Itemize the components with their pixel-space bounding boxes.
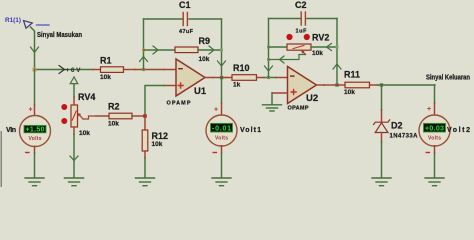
wire: R10 to U2 minus [264,77,276,79]
svg-text:Volts: Volts [428,136,441,142]
wire: +6V horizontal rail [35,69,94,71]
adjust buttons [61,104,67,110]
svg-text:1k: 1k [233,82,241,89]
op-amp U1 [167,59,207,107]
ground U2+ [263,104,282,106]
svg-text:Volts: Volts [215,136,228,142]
ground Volt1 [212,178,231,186]
svg-text:R1(1): R1(1) [5,17,21,24]
sheet border left edge [0,131,2,187]
svg-text:1uF: 1uF [296,29,308,35]
zener diode D2 [374,85,419,177]
input terminal R1(1) [5,17,49,28]
wire: U1 plus input path [145,86,176,117]
svg-text:+6V: +6V [66,67,82,74]
junction D2 node [380,83,383,86]
ground VIn [25,178,44,186]
svg-text:R9: R9 [199,36,211,46]
ground RV4 [65,178,84,186]
svg-text:+: + [427,106,431,113]
U2 plus input to ground [263,93,288,111]
feedback left vertical wire [143,19,145,70]
svg-text:RV2: RV2 [312,33,329,43]
svg-text:U2: U2 [306,93,318,104]
svg-text:Volt1: Volt1 [240,127,261,134]
current arrow up on left vertical [140,57,148,62]
junction input node [33,68,37,72]
svg-text:+: + [28,107,32,114]
junction minus node [142,68,145,71]
svg-text:10k: 10k [152,141,163,148]
junction at R9 wire left [142,48,145,51]
svg-text:10k: 10k [312,50,323,57]
top terminal arrow (open head, gap to rail) [73,84,75,97]
svg-text:Volts: Volts [29,136,42,142]
resistor R2 [96,102,145,128]
svg-text:C2: C2 [295,0,307,10]
svg-text:R2: R2 [108,102,120,112]
svg-text:R11: R11 [344,70,360,80]
svg-text:RV4: RV4 [78,92,95,102]
svg-text:VIn: VIn [6,127,16,134]
svg-text:U1: U1 [194,86,207,97]
resistor R12 [142,116,168,177]
svg-text:47uF: 47uF [179,29,194,35]
wiper arrow to R2 [83,116,96,119]
svg-text:R10: R10 [233,63,250,73]
capacitor C1 [144,0,222,35]
junction R2/R12 node [143,114,147,118]
feedback 2 left vertical [268,19,270,78]
current arrow on input wire [31,47,39,53]
body [71,105,78,127]
wire: Volt1 tap vertical [221,78,223,104]
svg-text:+0.03: +0.03 [425,126,444,133]
svg-text:D2: D2 [391,121,403,131]
op-amp U2 [288,67,319,112]
wiper of RV2 [269,55,306,60]
svg-text:Sinyal Keluaran: Sinyal Keluaran [426,75,470,82]
potentiometer RV4 [61,77,96,177]
svg-text:10k: 10k [108,121,119,128]
svg-text:OPAMP: OPAMP [288,106,309,112]
svg-text:Volt2: Volt2 [447,127,470,134]
svg-text:C1: C1 [179,0,191,10]
svg-text:R1: R1 [100,56,112,66]
voltmeter VIn [6,70,51,178]
svg-text:OPAMP: OPAMP [167,101,191,107]
svg-text:-0.01: -0.01 [212,126,231,133]
svg-text:Sinyal Masukan: Sinyal Masukan [37,32,82,39]
wire: R1 to U1 minus input [135,69,164,71]
voltmeter Volt1 [206,107,261,178]
current arrows on R9 wire [153,46,158,54]
wire: U2 output [317,84,325,86]
bottom terminal to ground [73,127,75,134]
svg-text:10k: 10k [344,89,355,96]
resistor R10 [226,63,264,89]
current arrow on RV2 track [327,44,332,51]
resistor R11 [338,70,378,97]
current arrow on +6V wire [59,66,65,74]
svg-text:+1.50: +1.50 [26,127,45,134]
ground D2 [372,178,391,186]
junction U2 minus node [267,76,270,79]
svg-text:10k: 10k [100,74,111,81]
resistor R1 [93,56,135,82]
svg-text:10k: 10k [199,56,210,63]
resistor R9 (feedback) [144,36,222,63]
feedback right vertical wire [221,19,223,78]
svg-text:10k: 10k [79,130,90,137]
ground Volt2 [425,178,444,186]
svg-text:1N4733A: 1N4733A [390,134,419,140]
ground R12 [136,178,155,186]
svg-text:+: + [214,107,218,114]
capacitor C2 [269,0,338,35]
potentiometer RV2 [269,33,338,64]
feedback 2 right vertical [336,19,338,86]
wire: corner down to Volt2 [434,85,436,103]
wire: U1 output [205,77,213,79]
voltmeter Volt2 [419,106,470,177]
svg-text:R12: R12 [152,131,169,141]
wire: output rail to corner [378,84,435,86]
wire: terminal to input node (vertical) [31,27,35,70]
